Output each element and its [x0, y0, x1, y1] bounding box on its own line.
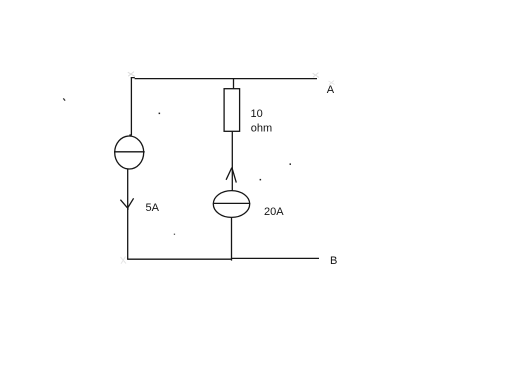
stray pencil mark: [63, 98, 65, 100]
current source I1 bar: [114, 151, 145, 153]
wire: left vertical lower segment: [127, 169, 129, 259]
current source I2 circle: [213, 191, 249, 218]
stray dot: [174, 234, 175, 235]
arrow down (5A direction): [120, 198, 133, 209]
svg-text:5A: 5A: [146, 202, 160, 214]
current source I1 circle: [115, 136, 144, 169]
stray dot: [159, 113, 161, 115]
eraser smudge near A rail end: [313, 73, 319, 78]
svg-text:ohm: ohm: [251, 122, 272, 134]
wire: resistor bottom to 20A source: [231, 131, 233, 190]
svg-text:10: 10: [251, 108, 263, 120]
eraser smudge above A: [329, 81, 335, 85]
svg-text:A: A: [327, 84, 335, 96]
wire: resistor top stub: [233, 79, 235, 89]
stray dot: [290, 163, 292, 165]
current source I2 bar: [213, 202, 250, 204]
svg-text:20A: 20A: [264, 206, 284, 218]
wire: 20A source bottom stub: [231, 217, 233, 260]
stray dot: [260, 179, 262, 181]
wire: bottom B-rail right segment: [232, 257, 319, 259]
eraser smudge near corner: [128, 72, 135, 77]
wire: left vertical upper segment with corner jog: [130, 77, 131, 136]
resistor R 10 ohm: [224, 89, 240, 132]
wire: top horizontal A-rail: [131, 78, 317, 79]
svg-text:B: B: [330, 255, 337, 267]
arrow up (20A direction): [226, 168, 236, 183]
eraser smudge at bottom-left corner: [121, 257, 127, 264]
wire: bottom B-rail left segment: [127, 258, 232, 260]
